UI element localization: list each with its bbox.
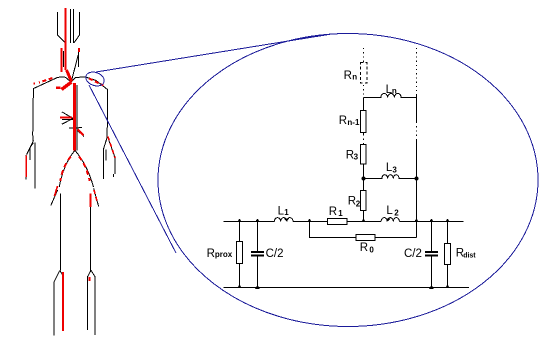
svg-text:1: 1 bbox=[284, 208, 289, 217]
svg-text:3: 3 bbox=[354, 153, 359, 162]
resistor Rprox bbox=[237, 242, 243, 264]
renal red diag bbox=[78, 130, 84, 136]
inductor L3 bbox=[364, 175, 417, 179]
carotid stub left bbox=[63, 51, 65, 67]
svg-text:n-1: n-1 bbox=[347, 118, 360, 127]
inductor L2 bbox=[381, 218, 399, 222]
wire Rprox branch bbox=[239, 222, 241, 288]
iliac left curve bbox=[59, 150, 75, 186]
left thigh red dash bbox=[55, 186, 58, 196]
left calf inner bbox=[60, 270, 63, 330]
svg-text:R: R bbox=[329, 206, 337, 218]
node top rail C/2 left bbox=[255, 219, 260, 223]
aorta trunk neck bbox=[65, 8, 67, 70]
left calf red bbox=[62, 272, 64, 331]
wire dotted below Rn bbox=[363, 85, 365, 95]
iliac right curve bbox=[75, 150, 94, 187]
svg-text:2: 2 bbox=[356, 200, 361, 209]
carotid red left bbox=[61, 48, 63, 72]
wire right ladder dotted mid bbox=[416, 122, 418, 140]
wire right ladder solid lower bbox=[416, 140, 418, 238]
node top rail R2 bbox=[361, 219, 366, 222]
capacitor C/2 left plates bbox=[251, 251, 264, 253]
svg-text:3: 3 bbox=[392, 166, 397, 175]
shoulder dip bbox=[65, 77, 85, 82]
arterial tree : red arteries bbox=[26, 8, 115, 331]
node bottom rail C/2 left bbox=[255, 285, 260, 290]
svg-text:0: 0 bbox=[369, 245, 374, 254]
carotid red right short bbox=[78, 48, 80, 52]
capacitor C/2 left wires bbox=[257, 222, 259, 288]
iliac red right dashes bbox=[79, 157, 90, 182]
right calf outer bbox=[87, 270, 91, 330]
neck vessel left inner bbox=[70, 9, 72, 43]
wire rail L1 to R1 bbox=[293, 221, 328, 223]
wire R1 to L2 bbox=[347, 221, 381, 223]
wire R0 branch drop bbox=[310, 222, 417, 238]
svg-text:n: n bbox=[392, 86, 397, 95]
arch blob bbox=[67, 70, 72, 82]
svg-text:1: 1 bbox=[338, 209, 343, 218]
callout tangent lower bbox=[89, 85, 176, 253]
right calf red bbox=[88, 277, 90, 281]
svg-text:R: R bbox=[207, 248, 215, 260]
svg-text:dist: dist bbox=[463, 252, 476, 259]
right thigh red bbox=[90, 194, 92, 208]
left subclavian dashes bbox=[39, 78, 53, 83]
svg-text:L: L bbox=[386, 205, 393, 217]
right arm stub bbox=[105, 149, 107, 160]
wire Rn-1 bottom bbox=[363, 133, 365, 136]
left calf outer bbox=[54, 270, 60, 335]
wire bottom rail bbox=[224, 287, 470, 289]
svg-text:R: R bbox=[339, 115, 347, 127]
shoulder tip red bbox=[33, 83, 35, 85]
inductor L1 bbox=[274, 218, 293, 222]
resistor R3 bbox=[361, 145, 367, 165]
shoulder right slope bbox=[85, 77, 107, 137]
left thigh stub bbox=[51, 190, 58, 206]
notch L1 bbox=[284, 219, 290, 222]
shoulder left slope bbox=[33, 77, 65, 141]
iliac red left dashes bbox=[60, 157, 71, 182]
wire dotted below Rn-1 bbox=[363, 135, 365, 145]
callout small ellipse bbox=[84, 70, 106, 89]
callout tangent upper bbox=[96, 34, 333, 72]
neck vessel right inner bbox=[73, 9, 75, 43]
wire corner to Rn-1 bbox=[363, 98, 365, 111]
node top rail Rdist bbox=[445, 219, 450, 222]
arterial tree body figure : black outlines bbox=[26, 9, 115, 335]
magnifier big ellipse bbox=[158, 34, 538, 327]
wire Rdist branch bbox=[447, 222, 449, 288]
left leg bbox=[60, 194, 62, 271]
left arm outer bbox=[34, 142, 36, 188]
arch diagonal bbox=[71, 55, 78, 82]
svg-text:R: R bbox=[344, 70, 352, 82]
left arm red bbox=[25, 156, 27, 177]
right subclavian dashes bbox=[89, 79, 104, 86]
resistor R1 bbox=[328, 218, 348, 224]
right arm fork inner bbox=[104, 137, 108, 179]
wire dotted right top bbox=[416, 48, 418, 96]
svg-text:R: R bbox=[360, 242, 368, 254]
node L3 left bbox=[361, 176, 365, 180]
wire right ladder solid upper bbox=[416, 96, 418, 123]
celiac red bbox=[60, 117, 72, 119]
node top rail Rprox bbox=[237, 219, 242, 222]
wire rail right bbox=[399, 221, 463, 223]
celiac arrow shaft bbox=[62, 119, 73, 121]
svg-text:2: 2 bbox=[394, 209, 399, 218]
descending aorta bbox=[73, 83, 76, 150]
node top rail C/2 right bbox=[429, 219, 434, 223]
wire R3 to L3 node bbox=[363, 164, 365, 179]
node bottom rail C/2 right bbox=[429, 285, 434, 290]
renal diag black bbox=[78, 131, 85, 137]
celiac arrow lower bbox=[62, 118, 73, 124]
resistor R2 bbox=[361, 191, 367, 211]
svg-text:C/2: C/2 bbox=[404, 248, 422, 260]
wire dotted above Rn bbox=[363, 48, 365, 63]
right calf inner bbox=[91, 270, 95, 335]
node top rail right ladder bbox=[414, 219, 419, 223]
svg-text:prox: prox bbox=[215, 250, 233, 259]
renal cross bar bbox=[69, 127, 82, 130]
right thigh stub bbox=[94, 189, 99, 207]
wire R2 to rail bbox=[363, 211, 365, 222]
resistor Rn-1 bbox=[361, 111, 367, 133]
wire C/2 right branch bbox=[431, 222, 433, 288]
aorta companion line bbox=[76, 85, 78, 150]
arch left horizontal bbox=[56, 87, 61, 89]
inductor Ln bbox=[364, 94, 417, 98]
wire R2 to L3 node bbox=[363, 179, 365, 191]
node top rail R0 branch bbox=[307, 219, 312, 222]
right arm red diag bbox=[108, 137, 115, 159]
resistor R0 bbox=[356, 235, 375, 241]
node L3 right bbox=[414, 176, 418, 180]
resistor Rdist bbox=[444, 244, 450, 265]
svg-text:n: n bbox=[352, 73, 357, 82]
node bottom rail Rprox bbox=[237, 285, 242, 288]
capacitor C/2 right plates bbox=[425, 251, 438, 253]
neck vessel right outer bbox=[74, 12, 80, 43]
neck vessel left outer bbox=[58, 12, 66, 43]
svg-text:C/2: C/2 bbox=[266, 248, 284, 260]
left arm stub bbox=[30, 143, 33, 160]
right leg bbox=[90, 194, 92, 270]
arch branch left bbox=[62, 82, 72, 90]
node bottom rail Rdist bbox=[445, 285, 450, 288]
right thigh stub red dashes bbox=[94, 190, 98, 204]
notch L2 bbox=[385, 219, 391, 222]
carotid stub right bbox=[78, 51, 80, 67]
left arm fork inner bbox=[26, 141, 33, 179]
junction dots bbox=[237, 176, 450, 289]
right arm outer diagonal bbox=[108, 137, 116, 178]
celiac arrow upper bbox=[62, 112, 73, 119]
wire top rail left bbox=[224, 221, 275, 223]
resistor Rn dashed bbox=[360, 63, 367, 83]
